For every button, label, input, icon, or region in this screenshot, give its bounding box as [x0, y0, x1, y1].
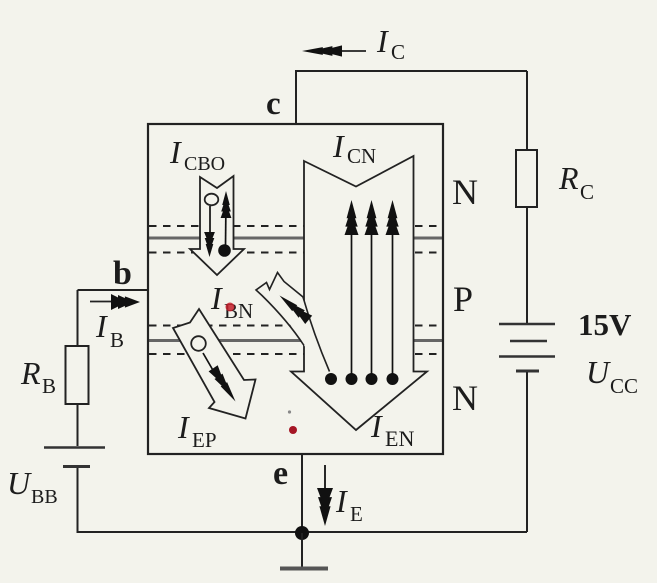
svg-text:P: P — [453, 279, 473, 319]
wire: top collector wire — [296, 71, 527, 124]
electron drift arrow in I_BN — [280, 296, 298, 312]
wire: Ubb down to bottom rail — [77, 468, 79, 532]
wire: battery down to bottom rail — [526, 372, 528, 532]
wire: Rb to battery Ubb — [77, 404, 79, 446]
svg-text:e: e — [273, 455, 288, 492]
transistor body box — [148, 124, 443, 454]
wire: b down to Rb — [77, 290, 79, 346]
svg-text:BB: BB — [31, 486, 58, 508]
svg-text:I: I — [370, 408, 383, 444]
red speck artifact — [289, 426, 297, 434]
svg-text:U: U — [586, 354, 611, 390]
svg-text:CC: CC — [610, 374, 638, 398]
wire: emitter down to rail — [301, 454, 303, 532]
battery Ubb — [44, 446, 105, 449]
hollow arrow I_EP — [173, 309, 256, 419]
svg-text:I: I — [210, 280, 223, 316]
wire: bottom rail — [77, 531, 528, 533]
svg-text:b: b — [113, 255, 132, 292]
svg-text:R: R — [20, 355, 41, 391]
svg-text:EN: EN — [385, 426, 414, 451]
svg-text:I: I — [95, 308, 108, 344]
current arrow I_E — [324, 465, 326, 495]
hole symbol in I_CBO — [205, 194, 219, 206]
svg-text:E: E — [350, 502, 363, 526]
svg-text:15V: 15V — [578, 307, 632, 342]
svg-text:I: I — [169, 134, 182, 170]
hollow arrow I_BN (recombination) — [256, 273, 330, 372]
hole symbol in I_EP — [191, 336, 206, 351]
svg-text:c: c — [266, 86, 281, 122]
svg-text:I: I — [376, 23, 389, 59]
electron drift arrows (up) in main stream — [351, 232, 353, 374]
hole drift arrow (down) in I_CBO — [209, 206, 211, 236]
svg-text:CBO: CBO — [184, 153, 225, 175]
svg-text:EP: EP — [192, 428, 217, 452]
svg-text:U: U — [7, 465, 32, 501]
hollow arrow I_CN / I_EN (main electron stream) — [291, 156, 427, 430]
svg-text:C: C — [580, 180, 594, 204]
current arrow I_C — [329, 50, 366, 52]
hole drift arrow in I_EP — [203, 353, 214, 372]
electron dot in I_CBO — [218, 244, 231, 257]
current arrow I_B — [90, 301, 115, 303]
junction lines upper (collector junction) — [149, 225, 442, 227]
hollow arrow I_CBO — [190, 176, 244, 275]
svg-text:C: C — [391, 40, 405, 64]
junction dot at emitter rail — [295, 526, 309, 540]
svg-text:N: N — [452, 172, 478, 212]
resistor RB — [66, 346, 89, 404]
wire: right branch to Rc — [526, 71, 528, 150]
red mark on B — [226, 303, 235, 312]
svg-text:B: B — [42, 374, 56, 398]
svg-text:I: I — [335, 483, 348, 519]
electron drift arrow (up) in I_CBO — [225, 200, 228, 246]
electron dots in emitter arrow — [325, 373, 337, 385]
battery Ucc — [499, 323, 555, 326]
wire: Rc to battery — [526, 207, 528, 323]
wire: base wire — [78, 289, 149, 291]
svg-text:N: N — [452, 378, 478, 418]
svg-text:B: B — [110, 328, 124, 352]
ground stub — [301, 533, 303, 567]
svg-text:I: I — [332, 128, 345, 164]
svg-text:CN: CN — [347, 144, 376, 168]
svg-text:R: R — [558, 160, 579, 196]
junction lines lower (emitter junction) — [149, 325, 442, 327]
resistor RC — [516, 150, 537, 207]
svg-text:I: I — [177, 409, 190, 445]
